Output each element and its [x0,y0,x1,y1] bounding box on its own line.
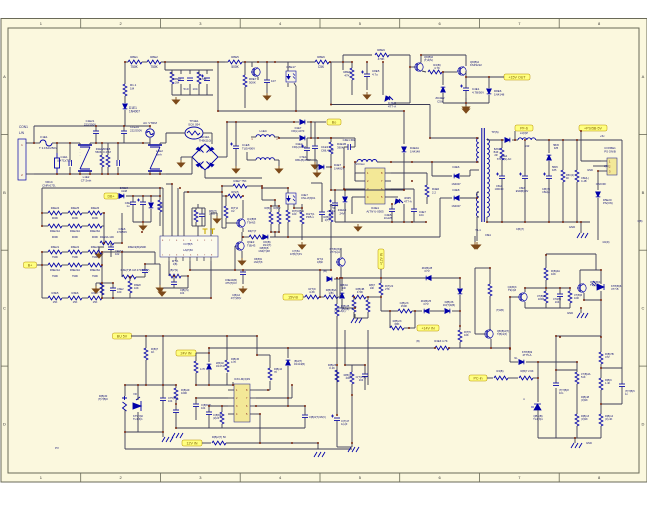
svg-text:R(B)7 2.9K: R(B)7 2.9K [520,369,533,373]
junction [403,221,405,223]
junction [442,71,444,73]
capacitor C3E2 100 [110,288,116,291]
svg-text:R(T)41(B)K: R(T)41(B)K [317,258,324,264]
svg-text:R4E3 4.7K: R4E3 4.7K [434,339,447,343]
junction [103,242,105,244]
wire [245,61,252,63]
wire [474,236,476,242]
wire [465,71,467,77]
junction [310,121,312,123]
svg-text:R8E6: R8E6 [317,55,325,59]
wire [208,370,210,385]
junction [583,299,585,301]
zener D5E6 5V6 [547,155,552,160]
wire [269,355,271,368]
junction [175,427,177,429]
svg-text:900K: 900K [52,216,58,220]
junction [351,394,353,396]
wire [476,192,478,198]
svg-text:R3E23A: R3E23A [90,268,100,272]
junction [142,142,144,144]
junction [159,195,161,197]
junction [545,254,547,256]
junction [330,137,332,139]
resistor R7E45 4.7K [225,360,229,372]
wire [501,179,503,222]
wire [202,442,211,444]
wire [579,270,581,284]
wire [354,317,368,319]
junction [242,236,244,238]
wire [311,121,326,123]
IC pin [359,196,365,198]
wire [334,206,336,222]
wire [597,198,599,240]
junction [330,137,332,139]
wire pin drop [162,188,164,236]
junction [366,61,368,63]
inductor L5E1 [518,138,536,140]
wire L [26,142,34,144]
wire [524,140,526,176]
junction [431,161,433,163]
wire [216,213,218,216]
common-mode choke L2E2 [148,145,162,171]
wire [420,55,422,63]
wire pin drop [183,192,185,236]
svg-text:R4E9A 10K: R4E9A 10K [100,235,114,239]
wire [509,297,511,348]
wire [69,167,71,174]
junction [69,173,71,175]
wire [509,296,511,298]
wire [142,196,144,202]
wire [311,182,322,184]
junction [274,61,276,63]
net flag 1 [203,229,208,234]
wire [166,183,172,185]
capacitor C5E6 [543,173,552,179]
resistor R4E21 900K [68,211,82,215]
wire [130,297,211,299]
resistor R8E8 47K [350,68,354,80]
wire [198,84,200,95]
wire [474,268,476,334]
wire [339,278,341,297]
wire pin drop [197,226,199,236]
wire [102,142,118,144]
resistor R3E4B 470K [352,295,366,299]
wire [235,149,237,166]
wire [42,225,48,227]
wire [270,206,272,212]
svg-text:R4E22A: R4E22A [70,229,80,233]
wire [336,278,338,304]
wire [234,246,236,270]
junction [336,414,338,416]
junction [319,296,321,298]
wire [440,197,452,199]
junction [101,142,103,144]
capacitor C4E1 682 [348,144,351,150]
wire [380,295,382,303]
wire [338,296,340,298]
wire [159,196,161,200]
wire [576,426,578,438]
capacitor C1E1 [69,160,72,166]
wire [79,171,81,174]
svg-text:L1E4: L1E4 [259,129,266,133]
wire ground bus [443,102,489,104]
diode D8E6 1N4148 [487,89,492,94]
wire [159,171,161,174]
junction [476,161,478,163]
junction [187,275,189,277]
junction [600,403,602,405]
wire [244,62,246,75]
power ground [214,216,221,223]
junction [291,442,293,444]
wire [160,142,166,144]
wire [429,105,431,139]
wire [221,406,223,412]
junction [164,61,166,63]
resistor R5E5 C4B [575,170,579,182]
wire [221,186,223,192]
wire [195,398,197,404]
wire [538,361,577,363]
junction [226,121,228,123]
wire [367,312,369,318]
svg-text:CON5E1PS ON/B: CON5E1PS ON/B [604,146,616,153]
capacitor C1E8 TLE/400V [230,143,239,149]
svg-text:790K: 790K [92,274,98,278]
wire [149,126,151,128]
junction [367,296,369,298]
capacitor C8E3 104 [201,75,210,81]
svg-text:+PS/5B-5V: +PS/5B-5V [584,126,602,130]
wire [62,251,68,253]
svg-text:900K: 900K [72,216,78,220]
wire [287,348,289,358]
wire [262,199,275,201]
wire [195,407,197,420]
resistor R4E18 100R [544,291,548,303]
junction [304,405,306,407]
junction [354,161,356,163]
power ground [472,242,479,249]
junction [600,367,602,369]
diode D4E11 [458,289,463,294]
wire comparator rail [209,347,435,349]
wire [189,261,191,270]
svg-text:A: A [3,74,6,79]
wire [256,397,292,399]
svg-text:790K: 790K [72,255,78,259]
svg-text:R4(T)7: R4(T)7 [248,229,257,233]
wire [403,204,405,222]
capacitor C7E57 [302,415,308,418]
junction [380,277,382,279]
wire [166,173,192,175]
junction [159,173,161,175]
wire [270,224,272,232]
wire [391,172,427,174]
wire [274,136,279,138]
diode D4E24 4148 [119,194,124,199]
wire [442,93,444,103]
resistor R8E2 750K [147,60,161,64]
svg-text:ON/OFF: ON/OFF [596,182,607,186]
junction [221,185,223,187]
wire [293,204,295,208]
svg-text:1N4007: 1N4007 [451,204,461,208]
capacitor C7E28 104 [362,374,368,377]
junction [173,275,175,277]
svg-text:F1E1: F1E1 [40,135,48,139]
wire +5V vertical feed [621,140,623,384]
resistor R4E21A 900K [68,224,82,228]
svg-text:15K: 15K [73,300,78,304]
wire [102,225,104,227]
svg-text:D5E2CPS(ON): D5E2CPS(ON) [603,198,613,205]
IC pin [228,389,234,391]
wire [145,336,147,348]
capacitor C4E5 10/25 [389,209,395,212]
svg-text:510: 510 [184,87,189,91]
wire [569,288,571,291]
wire opto drop [295,86,297,111]
wire [301,204,303,212]
wire pin drop [171,184,173,236]
wire [187,276,189,288]
ground [577,233,588,238]
wire [341,278,343,291]
junction [121,251,123,253]
wire [524,179,526,222]
diode D1E7 FR107 [300,120,305,125]
zener ZD4E28 C7V [426,276,431,281]
wire [330,167,332,190]
wire +DC rail [227,121,294,123]
wire [321,183,323,212]
junction [336,277,338,279]
resistor R4E9 C2 [224,206,228,218]
resistor R7E44 51K [575,372,579,384]
wire [132,205,134,222]
junction [343,166,345,168]
junction [195,384,197,386]
wire [149,171,151,174]
junction [293,207,295,209]
svg-text:790K: 790K [92,255,98,259]
resistor R7E45 C9K [575,414,579,426]
svg-text:Q4(B)3T9(4)3: Q4(B)3T9(4)3 [508,285,517,292]
junction [144,263,146,265]
wire [208,406,210,412]
resistor R7E47 1.4K [599,378,603,390]
wire [310,122,312,138]
svg-text:L/N: L/N [19,131,25,135]
resistor R3E5 27B [194,210,198,222]
wire [159,143,161,145]
power ground [355,224,362,231]
capacitor C8E5 4.7uF/50V [361,71,370,77]
wire [226,442,318,444]
svg-text:PF-6: PF-6 [520,126,528,130]
wire [175,385,177,388]
wire [259,414,261,443]
wire [366,296,368,298]
wire [524,288,526,292]
net label B+ [24,262,37,268]
svg-text:R4(B)4.7K: R4(B)4.7K [433,63,440,70]
svg-text:R4E21A: R4E21A [50,229,60,233]
wire [82,212,88,214]
wire [225,196,227,206]
wire [413,189,415,197]
wire [353,297,355,300]
capacitor C5A4 1000/10 [496,173,505,179]
junction [33,142,35,144]
junction [226,335,228,337]
wire [37,264,42,266]
svg-text:BU 5V: BU 5V [117,334,128,338]
svg-text:C(B): C(B) [638,220,643,223]
svg-text:D4E2A1N4148: D4E2A1N4148 [410,146,420,153]
junction [562,221,564,223]
resistor R7E40 [494,376,508,380]
wire bottom AC rail [34,173,160,175]
resistor R7E26 2.2K [335,370,339,382]
wire [150,196,152,202]
wire [89,171,91,174]
wire [82,251,88,253]
resistor R8E4 1.5M [197,72,201,84]
wire [576,182,578,222]
junction [390,161,392,163]
thermistor TH1E1 SCK054 [185,127,203,139]
wire [556,369,577,371]
capacitor C7E54 104 [160,398,166,401]
wire [243,236,249,238]
diode D4E6 1N4007 [454,174,459,179]
svg-text:CON1: CON1 [19,125,28,129]
wire [330,204,332,210]
wire [389,54,410,56]
wire [556,335,601,337]
wire [145,384,147,386]
diode D4E2A 1N4148 [402,147,407,152]
svg-text:R(S)5: R(S)5 [231,190,239,194]
wire [274,159,279,161]
wire [242,228,244,232]
wire [242,200,244,218]
junction [195,397,197,399]
wire [367,297,369,300]
photocoupler IC8E2 4T7-A LED pair [385,96,393,101]
resistor R8E7 500K [243,75,247,87]
wire [206,70,208,74]
wire [287,366,289,406]
SCR KT868 4T7-B [592,281,604,290]
ground [162,437,173,442]
wire [226,336,228,360]
wire [368,296,381,298]
svg-text:R4E7 75K: R4E7 75K [234,179,247,183]
wire [465,77,467,88]
junction [171,183,173,185]
wire [79,143,81,145]
wire N [26,173,34,175]
junction [101,173,103,175]
fuse F1 T3.15A/250V [40,140,52,146]
wire [382,62,384,95]
power ground [312,162,319,169]
wire [340,267,342,278]
resistor R8E6 C5K [315,60,329,64]
wire [600,390,602,414]
wire [203,132,212,134]
inductor L1E4 winding 3-4 [256,158,274,160]
wire [525,307,570,309]
wire [442,71,457,73]
svg-text:D6(B)91N4(T)8: D6(B)91N4(T)8 [254,258,263,264]
zener Z3E1 [149,203,154,208]
junction [56,173,58,175]
IC pin bottom [210,257,212,261]
transformer T1E1 core [482,128,485,222]
capacitor C1E4 [117,160,120,166]
junction [330,269,332,271]
resistor R3E32 15K [88,296,102,300]
diode D5E2C [596,192,601,197]
wire [601,403,622,405]
wire [403,111,405,144]
wire [545,280,547,288]
resistor R4E12 1R [277,212,281,224]
junction [537,377,539,379]
wire [221,196,223,228]
wire [291,385,293,398]
capacitor C7E52 224 [206,412,212,415]
junction [123,125,125,127]
junction [274,199,276,201]
junction [274,231,276,233]
wire [304,406,306,415]
wire [251,62,253,67]
wire [351,146,355,148]
svg-text:L4(O)P: L4(O)P [520,131,529,135]
power ground [157,285,164,292]
junction [411,180,413,182]
junction [414,310,416,312]
IC pin [359,180,365,182]
svg-text:790K: 790K [52,274,58,278]
junction [124,384,126,386]
junction [600,269,602,271]
wire [600,364,602,378]
wire [404,327,415,329]
resistor R4E6 2.2 [425,185,429,197]
resistor R3E11 4.7K [305,295,319,299]
wire [95,134,97,143]
power ground [474,242,481,249]
net label +12V IN (vertical) [378,249,384,269]
wire [82,225,88,227]
wire [351,80,353,95]
wire [351,443,353,447]
